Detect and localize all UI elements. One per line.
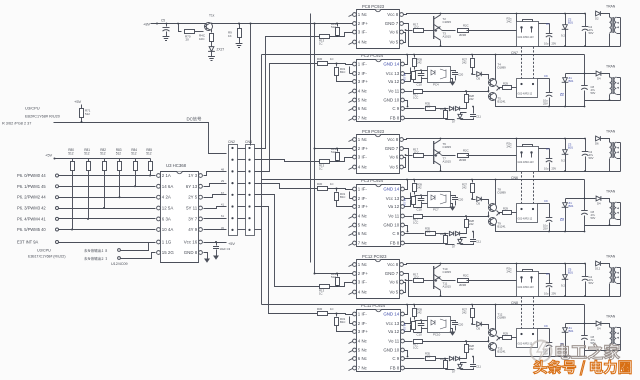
svg-text:D5: D5 [477, 202, 481, 206]
svg-text:Vcc 13: Vcc 13 [386, 321, 400, 326]
wire PC9 Vo junction [404, 158, 406, 168]
svg-text:+5V: +5V [45, 153, 53, 158]
wire mid-rail [262, 54, 585, 56]
svg-text:R30: R30 [317, 57, 323, 61]
wire PC8 drive output [467, 30, 517, 32]
wire input row 1 to U3 [59, 175, 156, 177]
svg-text:CN8: CN8 [511, 301, 518, 305]
wire PC2 sub-rail [566, 73, 596, 75]
svg-text:50V: 50V [591, 216, 596, 220]
svg-text:C7: C7 [546, 147, 550, 151]
svg-text:242: 242 [469, 222, 474, 226]
wire TRAN upper secondary return [620, 268, 622, 297]
resistor R20 [458, 154, 469, 158]
svg-text:512: 512 [68, 152, 74, 156]
svg-text:242: 242 [469, 97, 474, 101]
svg-text:GND 14: GND 14 [383, 187, 399, 192]
svg-text:B01: B01 [569, 79, 574, 83]
resistor R40b [412, 322, 416, 330]
resistor R39 [414, 55, 416, 58]
connector CN6 dashed link [521, 172, 523, 204]
svg-text:242: 242 [462, 185, 467, 189]
resistor series input PC8 [320, 35, 330, 39]
svg-text:15 2G: 15 2G [162, 250, 175, 255]
svg-text:10u: 10u [544, 167, 549, 171]
wire PC3 NC stubs [349, 217, 353, 219]
wire PC11 GND10 stub [405, 351, 408, 357]
zener diode D7 [445, 119, 447, 120]
svg-text:9.2: 9.2 [561, 284, 565, 288]
wire PC11 sub-rail [566, 323, 596, 325]
svg-text:C9: C9 [544, 74, 548, 78]
transistor T6 [433, 141, 435, 164]
svg-text:PC2 PC924: PC2 PC924 [361, 53, 384, 58]
svg-text:P6. 1/PWM1 45: P6. 1/PWM1 45 [17, 184, 46, 189]
resistor R35 [405, 233, 425, 235]
capacitor C4 [585, 264, 587, 277]
ground below C3 [213, 256, 219, 260]
capacitor C9 [549, 329, 551, 343]
diode D6b [596, 196, 601, 201]
transformer TRAN lower [610, 77, 612, 94]
svg-text:PC11 PC924: PC11 PC924 [361, 303, 386, 308]
wire PC11 drive output [512, 337, 517, 339]
svg-text:DC: DC [187, 117, 193, 122]
resistor series input PC9 [320, 160, 330, 164]
wire TRAN lower returns [620, 78, 622, 101]
svg-text:2Y 5: 2Y 5 [188, 195, 198, 200]
svg-text:D7: D7 [452, 120, 456, 124]
svg-text:2 IF-: 2 IF- [358, 71, 368, 76]
svg-text:4.5 Ve: 4.5 Ve [403, 323, 407, 331]
svg-text:50V: 50V [589, 281, 594, 285]
wire PC3 GND14 to mid-rail [405, 180, 408, 190]
wire T4 T5 emitters [488, 87, 490, 93]
wire T8 collector to rail [495, 180, 497, 205]
svg-text:C1815: C1815 [443, 145, 452, 149]
svg-text:25V: 25V [543, 226, 548, 230]
zener diode Z3b [565, 199, 567, 203]
wire PC12 Vcc rail [404, 264, 585, 265]
wire mid-rail [262, 304, 585, 306]
svg-text:1 1G: 1 1G [162, 240, 172, 245]
svg-text:Vo 5: Vo 5 [389, 290, 398, 295]
svg-text:512: 512 [84, 152, 90, 156]
svg-text:7 Nc: 7 Nc [358, 116, 368, 121]
svg-text:2R2R: 2R2R [459, 283, 466, 287]
svg-text:GND 14: GND 14 [383, 62, 399, 67]
wire bus route r0 to ch1 PC923 [255, 37, 320, 149]
svg-text:2 IF+: 2 IF+ [358, 271, 369, 276]
svg-text:R2C: R2C [463, 274, 469, 278]
resistor R17b [405, 341, 413, 343]
svg-text:1C: 1C [319, 42, 323, 46]
svg-text:TRAN: TRAN [606, 5, 616, 9]
wire PC9 Vcc rail [404, 139, 585, 140]
svg-text:1CC: 1CC [414, 150, 420, 154]
svg-text:C11: C11 [476, 365, 481, 369]
svg-text:12 5A: 12 5A [162, 206, 174, 211]
svg-text:A1015: A1015 [443, 35, 452, 39]
svg-text:P6. 3/PWM3 42: P6. 3/PWM3 42 [17, 206, 46, 211]
svg-text:G02 4VR2-12: G02 4VR2-12 [518, 93, 533, 96]
wire input row 2 to U3 [59, 186, 156, 188]
transistor T5 [489, 93, 497, 101]
wire TRAN upper secondary return [620, 18, 622, 47]
wire PC9 IF+ input [315, 148, 353, 150]
capacitor C10 [418, 324, 425, 326]
wire T13 collector to low rail [496, 350, 585, 357]
svg-text:6Y 13: 6Y 13 [186, 184, 198, 189]
svg-text:6 Nc: 6 Nc [358, 106, 368, 111]
svg-text:D4: D4 [597, 202, 601, 206]
diode D6a [449, 231, 453, 235]
resistor R27 [472, 305, 474, 308]
wire T8 T9 emitters [488, 212, 490, 218]
transformer TRAN upper [610, 142, 612, 158]
svg-text:4CC: 4CC [425, 104, 430, 108]
diode D6a [449, 106, 453, 110]
wire PC3 pin2 link [350, 198, 353, 200]
svg-text:C11: C11 [476, 240, 481, 244]
svg-text:PC9 PC923: PC9 PC923 [362, 129, 385, 134]
svg-text:5 Nc: 5 Nc [358, 348, 368, 353]
svg-text:4 Nc: 4 Nc [358, 40, 368, 45]
diode D5 [477, 197, 482, 202]
svg-text:PC8 PC923: PC8 PC923 [362, 4, 385, 9]
wire input row 3 to U3 [59, 197, 156, 199]
zener diode Z3 [565, 139, 567, 150]
wire PC9 drive output [467, 155, 517, 157]
svg-text:TRAN: TRAN [606, 130, 616, 134]
wire PC2 NC stubs [349, 92, 353, 94]
wire PC8 Vo junction [404, 33, 406, 43]
wire PC2 GND14 to mid-rail [405, 55, 408, 65]
connector CN7 dashed link [521, 47, 523, 79]
svg-text:1C: 1C [330, 182, 334, 186]
wire T1 base branch [179, 24, 182, 32]
wire PC8 NC stubs [349, 15, 353, 17]
wire U3 outputs to CN2 [204, 172, 227, 176]
transformer TRAN lower [610, 202, 612, 219]
svg-text:9.2: 9.2 [561, 34, 565, 38]
svg-text:D4: D4 [597, 327, 601, 331]
svg-text:A1015: A1015 [443, 285, 452, 289]
wire PC12 NC stubs [349, 265, 353, 267]
svg-text:D4: D4 [597, 77, 601, 81]
resistor R33 [405, 243, 446, 245]
svg-text:TRAN: TRAN [606, 65, 616, 69]
svg-text:Vo 11: Vo 11 [388, 89, 399, 94]
transistor T11 [434, 277, 441, 291]
svg-text:3 IF-: 3 IF- [358, 280, 368, 285]
svg-text:512: 512 [85, 112, 90, 116]
diode D6 [596, 136, 601, 141]
svg-text:C5: C5 [161, 19, 165, 23]
svg-text:4.5 Ve: 4.5 Ve [403, 73, 407, 81]
svg-text:24C: 24C [507, 144, 512, 148]
svg-text:D5: D5 [477, 327, 481, 331]
svg-text:R 3/62 /PG8 2 37: R 3/62 /PG8 2 37 [2, 122, 31, 126]
svg-text:+5V: +5V [228, 241, 235, 246]
svg-text:P6. 4/PWM4 41: P6. 4/PWM4 41 [17, 216, 46, 221]
svg-text:TRAN: TRAN [606, 315, 616, 319]
zener diode Z5b [565, 324, 567, 328]
wire Vo feedback node [488, 340, 490, 342]
optocoupler PC4 feedback [428, 67, 451, 83]
zener diode D7 [445, 369, 447, 370]
svg-text:TRAN: TRAN [606, 190, 616, 194]
connector CN6 lower half [517, 204, 538, 223]
svg-text:PC7: PC7 [433, 208, 439, 212]
svg-text:242: 242 [462, 310, 467, 314]
wire PC11 pin2 link [350, 323, 353, 325]
diode D6b [455, 106, 459, 110]
svg-text:1 Nc: 1 Nc [358, 262, 368, 267]
diode D5 [477, 322, 482, 327]
svg-text:GND 10: GND 10 [383, 223, 399, 228]
svg-text:1 IF-: 1 IF- [358, 187, 368, 192]
svg-text:10 4A: 10 4A [162, 227, 174, 232]
svg-text:1 IF-: 1 IF- [358, 62, 368, 67]
wire TRAN upper secondary return [620, 143, 622, 172]
svg-text:4CC: 4CC [425, 229, 430, 233]
svg-text:5 Nc: 5 Nc [358, 223, 368, 228]
resistor R39 [414, 180, 416, 183]
resistor R28 [465, 95, 469, 103]
node gate input 1 label [84, 249, 87, 252]
svg-text:U3/CPU: U3/CPU [37, 249, 51, 253]
svg-text:PC4: PC4 [433, 83, 439, 87]
svg-text:U12/4C09: U12/4C09 [111, 262, 128, 266]
svg-text:242: 242 [462, 60, 467, 64]
svg-text:Vcc 16: Vcc 16 [184, 240, 198, 245]
svg-text:24C: 24C [507, 269, 512, 273]
svg-text:6 3A: 6 3A [162, 216, 171, 221]
svg-text:Vo 6: Vo 6 [389, 280, 398, 285]
wire PC2 GND10 stub [405, 101, 408, 107]
svg-text:1 IF-: 1 IF- [358, 312, 368, 317]
svg-text:Z3: Z3 [560, 218, 564, 222]
svg-text:CN6: CN6 [511, 176, 518, 180]
ground below C20 [450, 207, 456, 211]
wire PC9 NC stubs [349, 140, 353, 142]
wire input row 4 to U3 [59, 208, 156, 210]
svg-text:1 Nc: 1 Nc [358, 137, 368, 142]
wire PC11 Vcc13 [405, 318, 411, 324]
diode D6b [455, 231, 459, 235]
diode D2b [596, 71, 601, 76]
svg-text:Vcc 13: Vcc 13 [386, 196, 400, 201]
svg-text:FB 8: FB 8 [390, 116, 400, 121]
wire EXT INT to U3 pin 1G [59, 242, 156, 244]
svg-text:7 Nc: 7 Nc [358, 366, 368, 371]
svg-text:10u: 10u [544, 292, 549, 296]
svg-text:P6. 5/PWM5 40: P6. 5/PWM5 40 [17, 227, 46, 232]
svg-text:B01: B01 [568, 146, 573, 150]
svg-text:GND 10: GND 10 [383, 98, 399, 103]
svg-text:4 Nc: 4 Nc [358, 214, 368, 219]
svg-text:C20: C20 [458, 323, 464, 327]
resistor input pull PC2 [336, 64, 338, 67]
svg-text:GND 7: GND 7 [385, 21, 399, 26]
svg-text:2 IF+: 2 IF+ [358, 146, 369, 151]
svg-text:Vcc 8: Vcc 8 [387, 137, 399, 142]
zener diode Z2 [565, 14, 567, 25]
resistor series input PC3 [318, 187, 328, 191]
wire PC3 low rail [584, 226, 586, 232]
transistor T3 [434, 27, 441, 41]
wire PC2 low rail [584, 101, 586, 107]
wire bus route r2 to ch1 PC924 [255, 64, 318, 172]
wire T2 T3 totem [440, 14, 442, 15]
svg-text:B1241: B1241 [498, 100, 507, 104]
svg-text:R2C: R2C [463, 149, 469, 153]
svg-text:B01: B01 [569, 329, 574, 333]
svg-text:20: 20 [186, 38, 190, 42]
resistor R21 gate [516, 264, 518, 272]
capacitor C11 [461, 118, 474, 120]
svg-text:C7: C7 [546, 22, 550, 26]
svg-text:C20: C20 [458, 73, 464, 77]
svg-text:Vcc 13: Vcc 13 [386, 71, 400, 76]
svg-text:5Y 11: 5Y 11 [186, 206, 198, 211]
svg-text:1C: 1C [319, 167, 323, 171]
wire Vo feedback node [488, 90, 490, 92]
wire T9 collector to low rail [496, 225, 585, 232]
capacitor C20 [451, 196, 456, 197]
capacitor C8 [581, 85, 588, 87]
diode D2 [596, 11, 601, 16]
svg-text:50V: 50V [589, 31, 594, 35]
ground below C20 [450, 332, 456, 336]
svg-text:U3/CPU: U3/CPU [25, 106, 40, 111]
svg-text:6 Nc: 6 Nc [358, 231, 368, 236]
svg-text:1C: 1C [330, 57, 334, 61]
capacitor C20 [451, 321, 456, 322]
wire PC2 pin2 link [350, 73, 353, 75]
svg-text:10C: 10C [199, 37, 205, 41]
svg-text:3 IF+: 3 IF+ [358, 79, 369, 84]
wire input row 6 to U3 [59, 229, 156, 231]
svg-text:Z2: Z2 [560, 93, 564, 97]
optocoupler PC7 feedback [428, 192, 451, 208]
wire +8V rail to PC923 IF+ pins [151, 23, 353, 25]
svg-text:7 Nc: 7 Nc [358, 241, 368, 246]
wire bus vertical feed ch1 IF [314, 24, 316, 274]
svg-text:1 Nc: 1 Nc [358, 12, 368, 17]
wire Vo feedback node [488, 215, 490, 217]
svg-text:Va 12: Va 12 [388, 329, 400, 334]
svg-text:PC12 PC923: PC12 PC923 [362, 254, 387, 259]
zener diode D7 [445, 244, 447, 245]
svg-text:3 IF-: 3 IF- [358, 155, 368, 160]
svg-text:R30: R30 [317, 307, 323, 311]
connector CN8 dashed link [521, 297, 523, 329]
wire T4 collector to rail [495, 55, 497, 80]
svg-text:CN2: CN2 [228, 140, 235, 144]
capacitor C4 [585, 14, 587, 27]
svg-text:B1241: B1241 [498, 350, 507, 354]
transistor T2 [433, 16, 435, 39]
svg-text:E3T INT 9A: E3T INT 9A [17, 240, 39, 245]
wire T12 collector to rail [495, 305, 497, 330]
wire T12 T13 emitters [488, 337, 490, 343]
svg-text:C7: C7 [546, 272, 550, 276]
resistor R40b [412, 72, 416, 80]
svg-text:Vo 11: Vo 11 [388, 339, 399, 344]
wire bus route r3 to ch2 PC924 [255, 184, 318, 189]
svg-text:R29: R29 [503, 82, 508, 86]
optocoupler PC10 feedback [428, 317, 451, 333]
wire PC3 GND10 stub [405, 226, 408, 232]
svg-text:G02 4VR2-12: G02 4VR2-12 [518, 343, 533, 346]
svg-text:10uF C3: 10uF C3 [220, 247, 231, 251]
svg-text:R2C: R2C [463, 24, 469, 28]
wire DC signal line [54, 123, 227, 154]
capacitor C8 [581, 335, 588, 337]
resistor R29 [503, 336, 512, 340]
svg-text:R30: R30 [317, 182, 323, 186]
transformer TRAN upper [610, 267, 612, 283]
wire PC12 Vo junction [404, 283, 406, 293]
svg-text:T1x: T1x [209, 14, 215, 18]
resistor R33 [405, 368, 446, 370]
svg-text:B1C: B1C [340, 70, 345, 74]
svg-text:14 6A: 14 6A [162, 184, 174, 189]
wire T6 T7 totem [440, 139, 442, 140]
svg-text:Vo 5: Vo 5 [389, 165, 398, 170]
wire bus route r4 to ch3 PC923 [255, 195, 320, 287]
wire PC9 GND to low rail [404, 149, 621, 172]
resistor R17 [414, 29, 424, 33]
svg-text:CN4: CN4 [245, 140, 252, 144]
wire U3 GND pin 8 [204, 253, 208, 259]
wire PC12 GND to low rail [404, 274, 621, 297]
resistor R17 [414, 279, 424, 283]
svg-text:PC10: PC10 [433, 333, 441, 337]
wire bus +8V drop to CN4 [250, 24, 252, 146]
node watermark text line 2 [534, 360, 547, 374]
ground below ZX27 [208, 57, 215, 61]
resistor R17b [405, 91, 413, 93]
svg-text:5 Nc: 5 Nc [358, 98, 368, 103]
svg-text:C1815: C1815 [443, 20, 452, 24]
svg-text:FB 8: FB 8 [390, 366, 400, 371]
svg-text:2 IF+: 2 IF+ [358, 21, 369, 26]
svg-text:B01: B01 [568, 271, 573, 275]
wire bus route r1 to ch2 PC923 [255, 160, 320, 162]
transistor T7 [434, 152, 441, 166]
svg-text:PC3 PC924: PC3 PC924 [361, 178, 384, 183]
svg-text:EB2#C1Y68# R/U20: EB2#C1Y68# R/U20 [25, 115, 60, 119]
capacitor C3 at U3 Vcc [216, 243, 218, 246]
svg-text:512: 512 [131, 152, 137, 156]
ground at U3 pin 8 [204, 259, 210, 263]
wire T10 T11 totem [440, 264, 442, 265]
transistor T12 [489, 329, 497, 337]
connector CN7 upper half [517, 22, 539, 47]
svg-text:D5: D5 [477, 77, 481, 81]
connector CN7 lower half [517, 79, 538, 98]
svg-text:D1899: D1899 [498, 66, 507, 70]
svg-text:242: 242 [469, 347, 474, 351]
resistor R17 [414, 154, 424, 158]
svg-text:1CC: 1CC [414, 25, 420, 29]
svg-text:4 Nc: 4 Nc [358, 290, 368, 295]
svg-text:CN7: CN7 [511, 51, 518, 55]
svg-text:D7: D7 [452, 245, 456, 249]
